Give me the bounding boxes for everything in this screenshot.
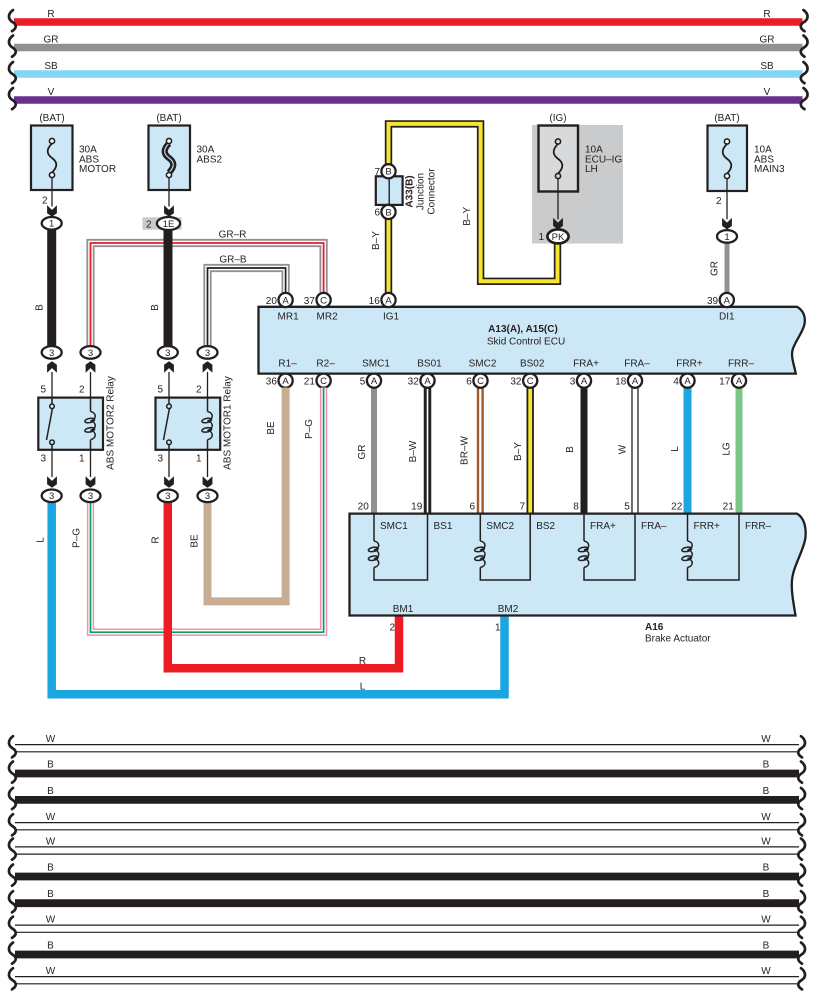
svg-text:32: 32 xyxy=(408,377,420,388)
svg-text:2: 2 xyxy=(42,196,48,207)
svg-text:P–G: P–G xyxy=(72,528,83,548)
svg-text:B: B xyxy=(47,760,54,771)
svg-text:B: B xyxy=(565,446,576,453)
svg-text:A: A xyxy=(282,295,289,306)
svg-text:W: W xyxy=(761,734,771,745)
svg-text:21: 21 xyxy=(304,377,316,388)
svg-text:C: C xyxy=(527,376,534,387)
svg-text:GR: GR xyxy=(760,35,775,46)
svg-text:SMC2: SMC2 xyxy=(486,521,514,532)
svg-text:W: W xyxy=(761,966,771,977)
svg-text:A: A xyxy=(724,295,731,306)
svg-text:A: A xyxy=(385,295,392,306)
svg-text:B: B xyxy=(763,889,770,900)
svg-text:C: C xyxy=(320,376,327,387)
svg-text:16: 16 xyxy=(369,296,381,307)
svg-text:18: 18 xyxy=(615,377,627,388)
svg-text:B: B xyxy=(385,167,391,178)
svg-text:A13(A), A15(C): A13(A), A15(C) xyxy=(488,324,558,335)
svg-text:DI1: DI1 xyxy=(719,312,735,323)
svg-text:W: W xyxy=(46,966,56,977)
svg-text:B–W: B–W xyxy=(408,440,419,462)
svg-text:SB: SB xyxy=(44,61,58,72)
svg-text:B: B xyxy=(47,863,54,874)
svg-text:BR–W: BR–W xyxy=(460,436,471,465)
svg-text:B–Y: B–Y xyxy=(513,442,524,461)
svg-text:GR–B: GR–B xyxy=(219,255,247,266)
svg-text:36: 36 xyxy=(266,377,278,388)
svg-text:3: 3 xyxy=(88,348,93,359)
svg-text:FRR+: FRR+ xyxy=(676,359,703,370)
svg-text:PK: PK xyxy=(552,232,565,243)
svg-text:BE: BE xyxy=(266,421,277,435)
svg-text:5: 5 xyxy=(157,385,163,396)
svg-text:7: 7 xyxy=(519,501,525,512)
svg-text:2: 2 xyxy=(196,385,202,396)
svg-text:1: 1 xyxy=(196,454,202,465)
svg-text:W: W xyxy=(618,444,629,454)
svg-text:1: 1 xyxy=(724,232,729,243)
svg-text:FRR–: FRR– xyxy=(728,359,755,370)
svg-text:1: 1 xyxy=(49,219,54,230)
svg-text:ABS2: ABS2 xyxy=(197,154,223,165)
svg-text:B: B xyxy=(763,863,770,874)
svg-text:21: 21 xyxy=(723,501,735,512)
svg-text:(BAT): (BAT) xyxy=(714,113,739,124)
svg-text:R: R xyxy=(359,656,366,667)
svg-text:FRR–: FRR– xyxy=(745,521,772,532)
svg-text:Junction: Junction xyxy=(416,173,427,210)
svg-text:W: W xyxy=(46,734,56,745)
svg-text:SMC1: SMC1 xyxy=(380,521,408,532)
svg-text:B: B xyxy=(47,941,54,952)
svg-text:BS2: BS2 xyxy=(536,521,555,532)
svg-text:IG1: IG1 xyxy=(383,312,400,323)
svg-text:FRR+: FRR+ xyxy=(694,521,721,532)
svg-text:A: A xyxy=(371,376,378,387)
svg-text:MR2: MR2 xyxy=(317,312,339,323)
svg-text:3: 3 xyxy=(570,377,576,388)
svg-text:A33(B): A33(B) xyxy=(405,175,416,207)
svg-text:FRA–: FRA– xyxy=(624,359,650,370)
svg-text:2: 2 xyxy=(389,623,395,634)
svg-text:A: A xyxy=(282,376,289,387)
svg-text:B: B xyxy=(763,760,770,771)
svg-text:C: C xyxy=(477,376,484,387)
svg-text:3: 3 xyxy=(157,454,163,465)
svg-text:4: 4 xyxy=(673,377,679,388)
svg-text:W: W xyxy=(761,915,771,926)
svg-text:Connector: Connector xyxy=(427,168,438,215)
svg-text:1: 1 xyxy=(538,232,544,243)
svg-text:GR: GR xyxy=(44,35,59,46)
svg-text:A: A xyxy=(684,376,691,387)
svg-text:BS01: BS01 xyxy=(417,359,442,370)
svg-text:6: 6 xyxy=(374,208,380,219)
svg-text:Brake Actuator: Brake Actuator xyxy=(645,634,711,645)
svg-text:6: 6 xyxy=(466,377,472,388)
svg-text:V: V xyxy=(764,87,771,98)
svg-text:MR1: MR1 xyxy=(278,312,300,323)
svg-text:L: L xyxy=(36,537,47,543)
svg-text:B: B xyxy=(763,786,770,797)
svg-text:W: W xyxy=(761,837,771,848)
svg-text:V: V xyxy=(48,87,55,98)
svg-text:FRA+: FRA+ xyxy=(573,359,599,370)
svg-text:3: 3 xyxy=(165,348,170,359)
svg-text:GR–R: GR–R xyxy=(219,230,247,241)
svg-text:19: 19 xyxy=(411,501,423,512)
svg-text:39: 39 xyxy=(707,296,719,307)
svg-text:B: B xyxy=(47,889,54,900)
svg-text:(BAT): (BAT) xyxy=(39,113,64,124)
svg-text:3: 3 xyxy=(205,491,210,502)
svg-text:R2–: R2– xyxy=(316,359,335,370)
svg-text:20: 20 xyxy=(358,501,370,512)
svg-text:C: C xyxy=(320,295,327,306)
svg-text:1: 1 xyxy=(495,623,501,634)
svg-text:7: 7 xyxy=(374,167,380,178)
svg-text:B: B xyxy=(35,304,46,311)
svg-text:B: B xyxy=(47,786,54,797)
svg-text:(BAT): (BAT) xyxy=(156,113,181,124)
svg-text:A: A xyxy=(736,376,743,387)
svg-text:L: L xyxy=(670,446,681,452)
svg-text:GR: GR xyxy=(710,261,721,276)
svg-text:LH: LH xyxy=(585,164,598,175)
svg-text:R: R xyxy=(151,536,162,543)
svg-text:B–Y: B–Y xyxy=(371,231,382,250)
svg-text:W: W xyxy=(46,915,56,926)
svg-text:BM1: BM1 xyxy=(393,604,414,615)
svg-text:LG: LG xyxy=(722,442,733,456)
svg-text:FRA+: FRA+ xyxy=(590,521,616,532)
svg-text:W: W xyxy=(761,812,771,823)
svg-text:1E: 1E xyxy=(163,219,175,230)
svg-text:R: R xyxy=(763,9,770,20)
svg-text:3: 3 xyxy=(88,491,93,502)
svg-text:A: A xyxy=(424,376,431,387)
svg-text:A: A xyxy=(581,376,588,387)
svg-text:R1–: R1– xyxy=(278,359,297,370)
svg-text:(IG): (IG) xyxy=(549,113,566,124)
svg-text:3: 3 xyxy=(165,491,170,502)
svg-text:MAIN3: MAIN3 xyxy=(754,164,785,175)
svg-text:W: W xyxy=(46,837,56,848)
svg-text:BS02: BS02 xyxy=(520,359,545,370)
svg-text:BS1: BS1 xyxy=(434,521,453,532)
svg-text:5: 5 xyxy=(624,501,630,512)
svg-text:22: 22 xyxy=(671,501,683,512)
svg-text:FRA–: FRA– xyxy=(641,521,667,532)
svg-text:3: 3 xyxy=(49,491,54,502)
svg-text:17: 17 xyxy=(719,377,731,388)
svg-text:5: 5 xyxy=(360,377,366,388)
svg-text:3: 3 xyxy=(49,348,54,359)
svg-text:5: 5 xyxy=(40,385,46,396)
svg-text:P–G: P–G xyxy=(304,419,315,439)
svg-text:B: B xyxy=(150,304,161,311)
svg-text:37: 37 xyxy=(304,296,316,307)
svg-text:2: 2 xyxy=(79,385,85,396)
svg-text:ABS MOTOR2 Relay: ABS MOTOR2 Relay xyxy=(105,376,116,470)
svg-text:A16: A16 xyxy=(645,622,664,633)
svg-text:2: 2 xyxy=(716,196,722,207)
svg-text:B: B xyxy=(763,941,770,952)
svg-text:3: 3 xyxy=(40,454,46,465)
svg-text:A: A xyxy=(632,376,639,387)
svg-text:MOTOR: MOTOR xyxy=(79,164,116,175)
svg-text:B: B xyxy=(385,207,391,218)
svg-text:BE: BE xyxy=(190,534,201,548)
svg-text:Skid Control ECU: Skid Control ECU xyxy=(487,337,565,348)
svg-text:SMC2: SMC2 xyxy=(469,359,497,370)
svg-text:BM2: BM2 xyxy=(498,604,519,615)
svg-text:2: 2 xyxy=(146,219,152,230)
svg-text:6: 6 xyxy=(470,501,476,512)
svg-text:1: 1 xyxy=(79,454,85,465)
svg-text:3: 3 xyxy=(205,348,210,359)
svg-text:ABS MOTOR1 Relay: ABS MOTOR1 Relay xyxy=(223,376,234,470)
svg-text:W: W xyxy=(46,812,56,823)
svg-text:L: L xyxy=(360,682,366,693)
svg-text:R: R xyxy=(47,9,54,20)
svg-text:32: 32 xyxy=(510,377,522,388)
svg-text:GR: GR xyxy=(357,445,368,460)
svg-text:SMC1: SMC1 xyxy=(362,359,390,370)
svg-text:8: 8 xyxy=(573,501,579,512)
svg-text:SB: SB xyxy=(760,61,774,72)
svg-text:20: 20 xyxy=(266,296,278,307)
svg-text:B–Y: B–Y xyxy=(462,207,473,226)
